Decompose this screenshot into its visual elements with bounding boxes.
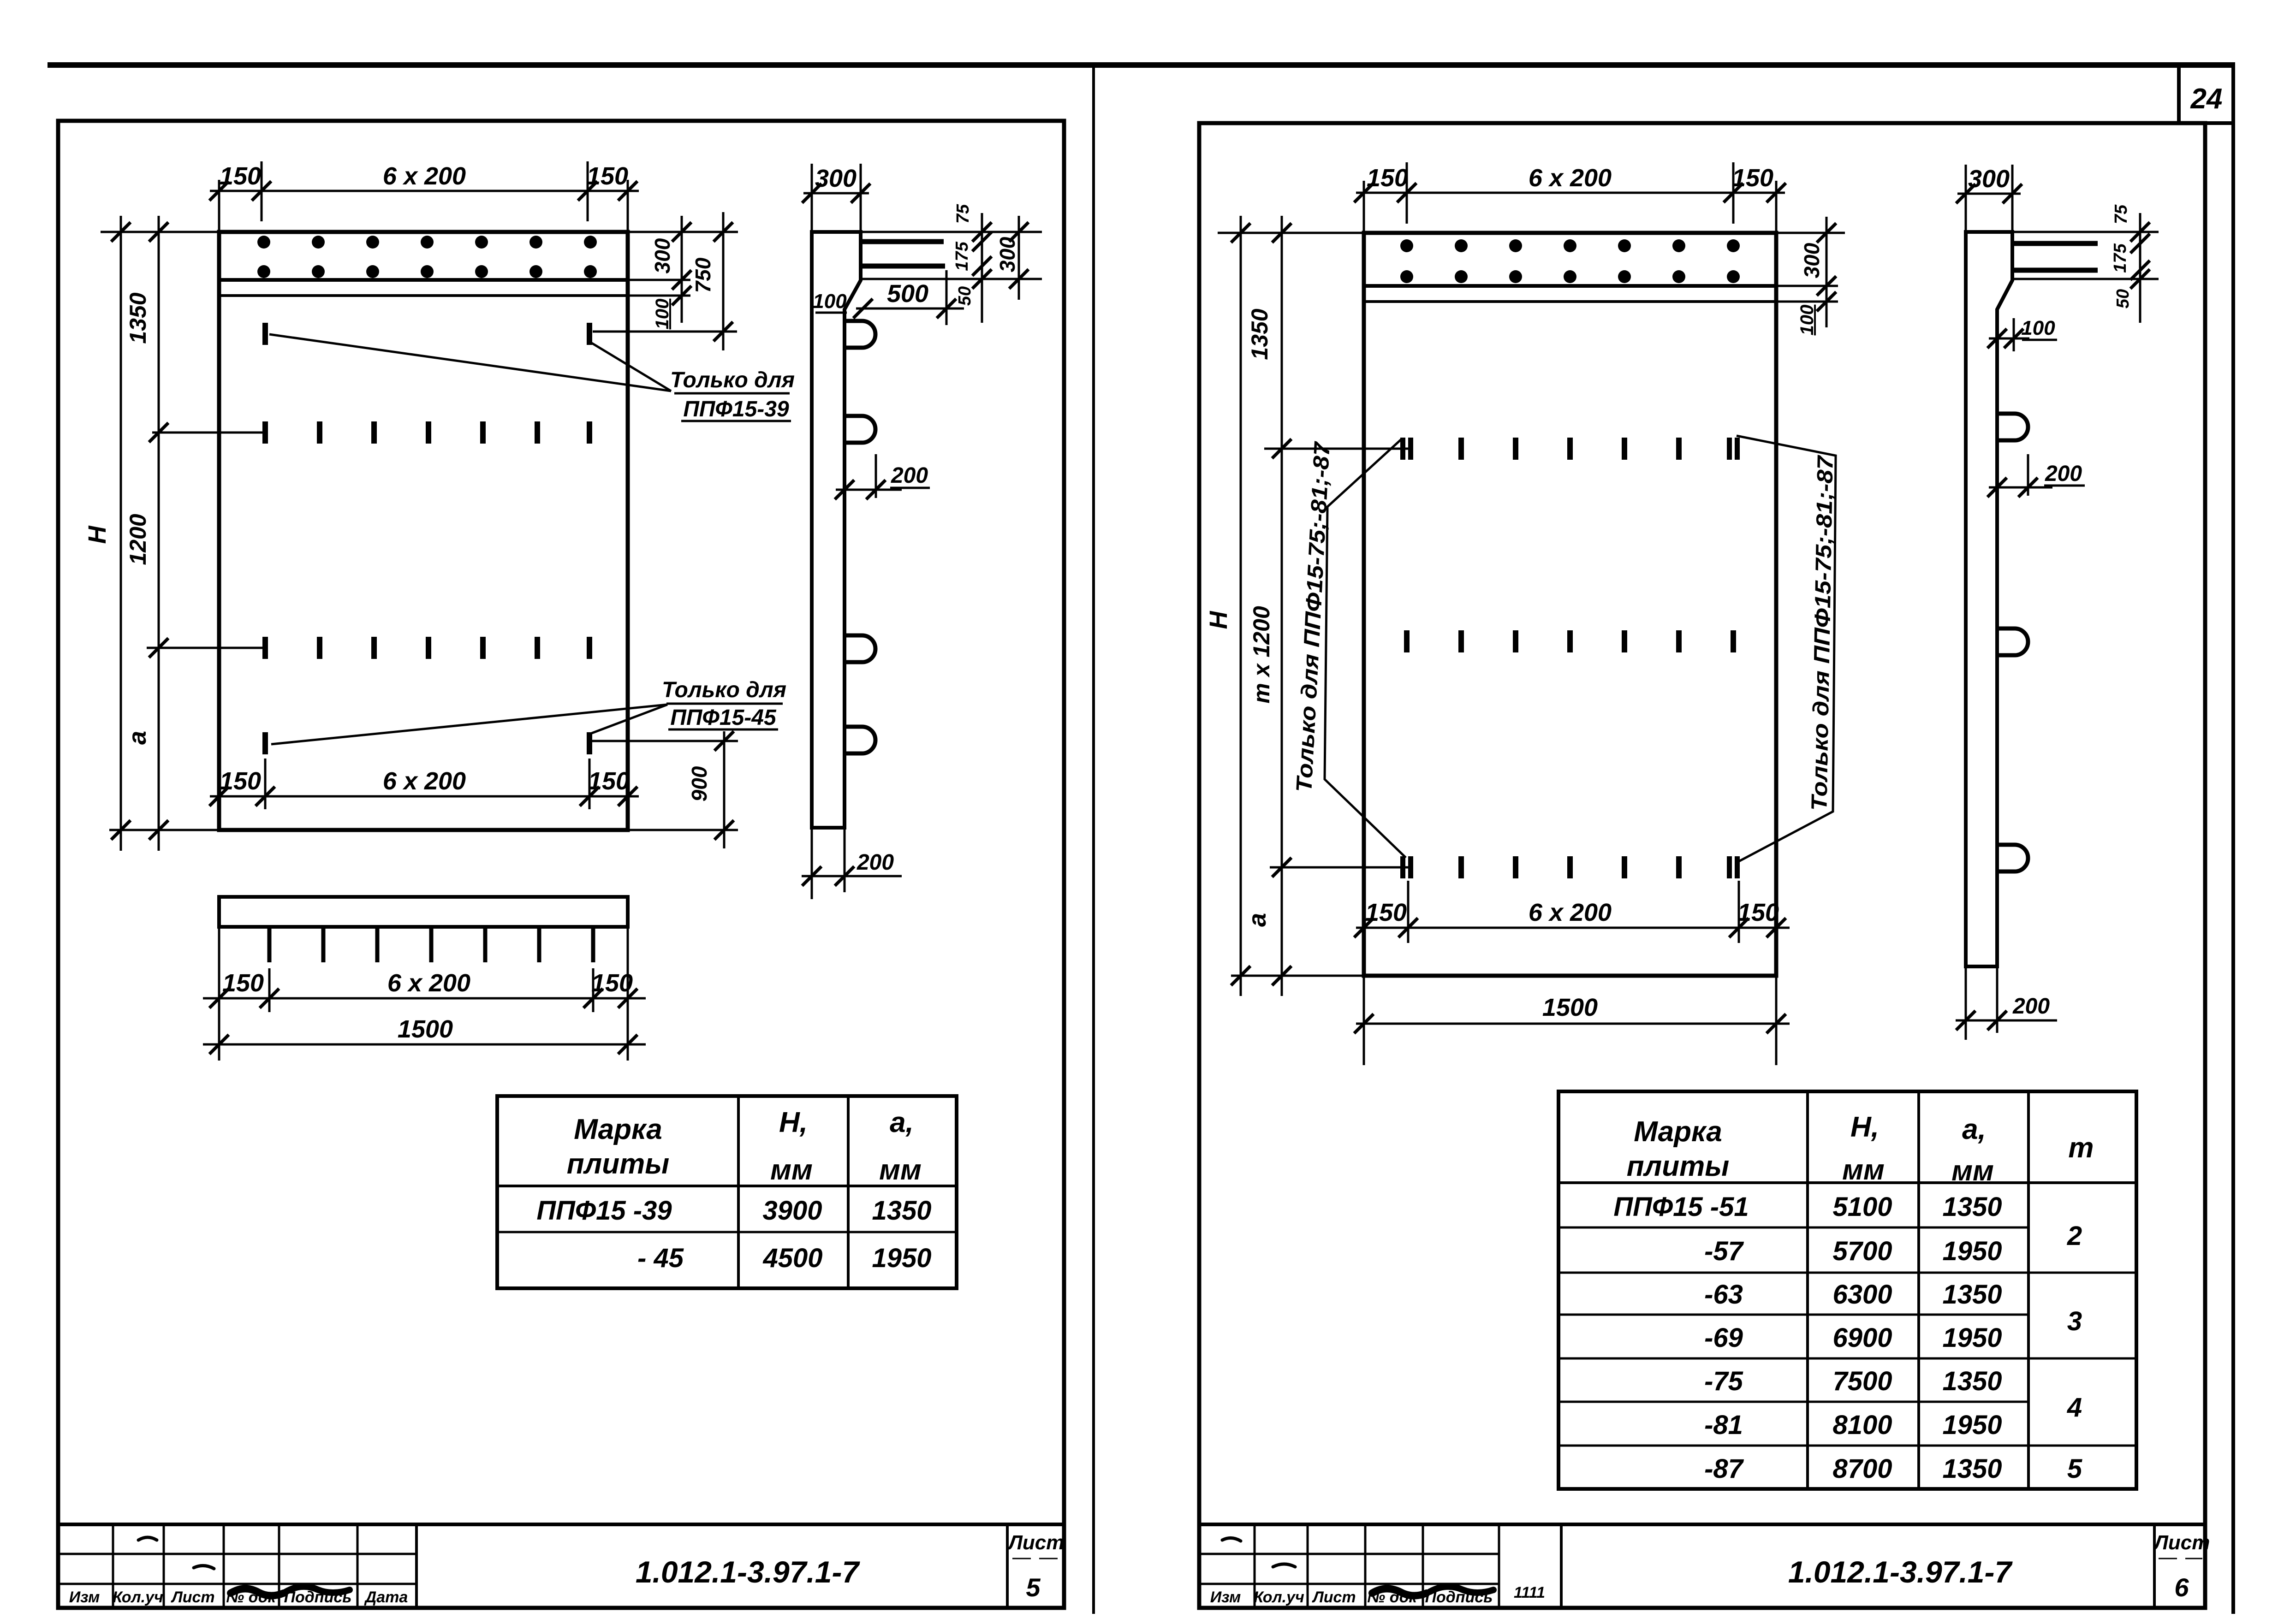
svg-text:1950: 1950: [1942, 1410, 2002, 1440]
left dimension chain H / 1350 1200 a: [83, 216, 267, 851]
svg-text:1350: 1350: [1942, 1454, 2002, 1484]
svg-text:а: а: [1243, 913, 1271, 927]
plan view slab outline: [219, 232, 628, 830]
rebar tick row 2: [262, 421, 592, 444]
right side dims of plan: 300 100 750: [593, 212, 738, 350]
protruding bar 1: [862, 239, 944, 244]
lifting hook 2: [845, 416, 875, 443]
section outline: [812, 232, 861, 828]
svg-text:75: 75: [2112, 204, 2131, 224]
flange anchor dots row 1: [1400, 239, 1740, 252]
svg-text:300: 300: [1800, 243, 1824, 278]
bottom 200 dimension: [1965, 966, 1967, 1040]
svg-text:мм: мм: [1842, 1154, 1885, 1186]
svg-text:Только для ППФ15-75;-81;-87: Только для ППФ15-75;-81;-87: [1292, 440, 1335, 793]
right sheet table: [1558, 1091, 2136, 1489]
svg-text:3900: 3900: [762, 1196, 822, 1226]
left dimension chain H / 1350 m x 1200 a: [1205, 216, 1408, 996]
plan top flange bottom line: [219, 278, 628, 282]
plan second line: [219, 294, 628, 297]
lifting hook 2: [1997, 628, 2028, 655]
svg-text:плиты: плиты: [567, 1148, 669, 1180]
vertical dim chain 75 175 50: [981, 213, 983, 323]
svg-text:8700: 8700: [1832, 1454, 1892, 1484]
svg-text:-63: -63: [1704, 1280, 1743, 1310]
svg-text:150: 150: [1737, 899, 1779, 926]
svg-text:200: 200: [2045, 462, 2082, 486]
rebar tick row 3: [262, 637, 592, 659]
svg-text:1111: 1111: [1514, 1584, 1545, 1601]
svg-text:мм: мм: [1951, 1155, 1994, 1187]
bottom view dim 1500: [203, 1043, 646, 1046]
svg-text:150: 150: [1732, 164, 1773, 192]
svg-text:1350: 1350: [1942, 1192, 2002, 1222]
rebar tick row 4 (only for PPF15-45): [262, 732, 592, 754]
svg-text:- 45: - 45: [637, 1243, 684, 1273]
line under bars: [862, 278, 1042, 280]
protruding bar 2: [2014, 268, 2098, 273]
svg-text:-81: -81: [1704, 1410, 1743, 1440]
flange anchor dots row 1: [257, 236, 597, 249]
plan second line: [1364, 300, 1776, 303]
svg-text:1350: 1350: [1247, 308, 1273, 360]
svg-text:50: 50: [2113, 289, 2133, 308]
svg-text:6300: 6300: [1832, 1280, 1892, 1310]
svg-text:5700: 5700: [1832, 1236, 1892, 1266]
svg-text:Лист: Лист: [1007, 1531, 1065, 1554]
svg-text:Н: Н: [1205, 611, 1232, 629]
svg-text:300: 300: [815, 165, 857, 192]
bottom 200 dimension: [811, 828, 813, 899]
svg-text:300: 300: [1968, 165, 2010, 193]
svg-text:150: 150: [1365, 899, 1407, 926]
svg-text:-57: -57: [1704, 1236, 1744, 1266]
left title block: [58, 1524, 1064, 1608]
svg-text:Н,: Н,: [1850, 1111, 1879, 1143]
leader label: Только для ППФ15-39: [269, 334, 795, 421]
svg-text:900: 900: [687, 766, 711, 801]
svg-text:ППФ15-45: ППФ15-45: [670, 705, 777, 730]
hook 200 dimension: [875, 454, 877, 498]
svg-text:150: 150: [588, 767, 630, 795]
svg-text:Н,: Н,: [779, 1107, 808, 1138]
svg-text:мм: мм: [879, 1154, 922, 1186]
svg-text:-75: -75: [1704, 1366, 1743, 1396]
svg-text:Изм: Изм: [1210, 1588, 1241, 1606]
svg-text:750: 750: [691, 257, 715, 293]
line under bars: [2014, 278, 2159, 280]
svg-text:5: 5: [1026, 1573, 1041, 1602]
svg-text:Марка: Марка: [1634, 1116, 1722, 1148]
svg-text:6: 6: [2174, 1573, 2189, 1602]
right side dims of plan: 300 100: [1776, 217, 1845, 335]
svg-text:а,: а,: [890, 1107, 914, 1138]
svg-text:8100: 8100: [1832, 1410, 1892, 1440]
svg-text:1950: 1950: [1942, 1236, 2002, 1266]
svg-text:Н: Н: [83, 526, 111, 544]
leader label: Только для ППФ15-45: [271, 678, 786, 744]
svg-text:24: 24: [2190, 83, 2223, 115]
right rotated leader label: [1737, 436, 1838, 861]
svg-text:1350: 1350: [1942, 1280, 2002, 1310]
svg-text:150: 150: [220, 162, 261, 190]
svg-text:1350: 1350: [872, 1196, 931, 1226]
svg-text:а: а: [124, 731, 151, 745]
section outline: [1966, 232, 2012, 966]
lifting hook 4: [845, 727, 875, 753]
svg-text:5: 5: [2067, 1454, 2082, 1484]
svg-text:4: 4: [2067, 1393, 2082, 1422]
svg-text:1.012.1-3.97.1-7: 1.012.1-3.97.1-7: [1788, 1555, 2013, 1589]
svg-text:150: 150: [220, 767, 261, 795]
rebar tick row bottom (doubles at ends): [1400, 856, 1740, 878]
right sheet side section view: [1956, 165, 2159, 1040]
rebar tick row 1 (only for PPF15-39): [262, 323, 592, 345]
svg-text:Лист: Лист: [170, 1588, 214, 1606]
svg-text:175: 175: [2111, 243, 2130, 273]
svg-text:100: 100: [2021, 317, 2055, 339]
svg-text:Дата: Дата: [364, 1588, 408, 1606]
bottom inner dimension line 150 6x200 150: [1354, 881, 1790, 943]
svg-text:6 х 200: 6 х 200: [1529, 899, 1612, 926]
lifting hook 3: [845, 635, 875, 662]
lifting hook 3: [1997, 845, 2028, 871]
svg-text:ППФ15-39: ППФ15-39: [683, 397, 789, 421]
hook 200 dimension: [2027, 454, 2029, 496]
svg-text:150: 150: [1367, 164, 1408, 192]
page top border line: [48, 62, 2235, 68]
top dimension line 150 6x200 150: [1354, 162, 1786, 233]
lifting hook 1: [845, 321, 875, 348]
protruding bar 2: [862, 264, 945, 269]
svg-text:200: 200: [857, 850, 894, 875]
section top 300 dim: [811, 164, 813, 232]
svg-text:1950: 1950: [1942, 1323, 2002, 1353]
sheet 6 frame: [1199, 123, 2205, 1608]
svg-text:1350: 1350: [1942, 1366, 2002, 1396]
svg-text:1500: 1500: [398, 1015, 453, 1043]
flange anchor dots row 2: [1400, 270, 1740, 283]
svg-text:150: 150: [591, 969, 633, 997]
rebar tick row top (doubles at ends, only for PPF15-75,81,87): [1400, 438, 1740, 460]
svg-text:1350: 1350: [125, 292, 151, 344]
svg-text:2: 2: [2067, 1221, 2082, 1251]
svg-text:75: 75: [953, 204, 973, 224]
svg-text:m: m: [2068, 1132, 2094, 1164]
svg-text:300: 300: [995, 237, 1019, 272]
flange anchor dots row 2: [257, 265, 597, 278]
top face extension: [2012, 231, 2159, 233]
svg-text:Марка: Марка: [574, 1114, 662, 1145]
bottom dimension line 150 6x200 150 (inside plan): [209, 759, 639, 809]
plan top flange bottom line: [1364, 284, 1776, 288]
section top 300 dim: [1965, 165, 1967, 232]
svg-text:ППФ15 -39: ППФ15 -39: [536, 1196, 672, 1226]
svg-text:50: 50: [955, 286, 975, 306]
svg-text:7500: 7500: [1832, 1366, 1892, 1396]
svg-text:1.012.1-3.97.1-7: 1.012.1-3.97.1-7: [636, 1555, 861, 1589]
svg-text:3: 3: [2067, 1306, 2082, 1336]
svg-text:1500: 1500: [1542, 994, 1598, 1021]
svg-text:100: 100: [652, 299, 672, 330]
svg-text:Только для: Только для: [662, 678, 786, 702]
lifting hook 1: [1997, 414, 2028, 440]
vertical 300 dim: [1018, 216, 1020, 300]
protruding bar 1: [2014, 241, 2098, 246]
svg-text:6900: 6900: [1832, 1323, 1892, 1353]
vertical dim chain 75 175 50: [2139, 213, 2141, 323]
svg-text:а,: а,: [1962, 1114, 1986, 1145]
svg-text:150: 150: [587, 162, 628, 190]
svg-text:1950: 1950: [872, 1243, 931, 1273]
svg-text:100: 100: [1797, 305, 1817, 336]
page divider between sheets: [1092, 65, 1095, 1614]
svg-text:Лист: Лист: [1311, 1588, 1356, 1606]
svg-text:200: 200: [2012, 994, 2050, 1019]
top face extension: [861, 231, 1042, 233]
svg-text:1200: 1200: [125, 514, 151, 565]
bottom 1500 dimension: [1354, 976, 1790, 1065]
plan view slab outline: [1364, 233, 1776, 976]
svg-text:Только для: Только для: [670, 368, 795, 392]
svg-text:175: 175: [952, 241, 972, 271]
svg-text:5100: 5100: [1832, 1192, 1892, 1222]
svg-text:m х 1200: m х 1200: [1249, 606, 1274, 703]
svg-text:6 х 200: 6 х 200: [1529, 164, 1612, 192]
left sheet bottom edge view: [203, 897, 646, 1061]
left rotated leader label: [1292, 439, 1406, 858]
svg-text:6 х 200: 6 х 200: [383, 767, 466, 795]
bottom view dim 150 6x200 150: [268, 968, 271, 1012]
svg-text:Изм: Изм: [69, 1588, 100, 1606]
page number box 24: [2177, 65, 2181, 123]
svg-text:Лист: Лист: [2153, 1531, 2210, 1554]
500 dimension: [946, 270, 948, 325]
svg-text:500: 500: [887, 280, 928, 308]
page right border: [2231, 65, 2235, 1614]
svg-text:Кол.уч: Кол.уч: [1254, 1588, 1304, 1606]
sheet 5 frame: [58, 121, 1064, 1608]
svg-text:плиты: плиты: [1627, 1150, 1729, 1182]
title block handwriting smudges: [138, 1537, 1493, 1596]
svg-text:мм: мм: [770, 1154, 813, 1186]
svg-text:300: 300: [650, 238, 674, 273]
top dimension line 150 6x200 150: [209, 161, 639, 232]
900 dimension at bottom right of plan: [591, 731, 738, 848]
right title block: [1199, 1524, 2210, 1608]
svg-text:6 х 200: 6 х 200: [383, 162, 466, 190]
rebar tick row middle: [1404, 630, 1736, 652]
svg-text:100: 100: [813, 290, 847, 313]
svg-text:4500: 4500: [762, 1243, 822, 1273]
svg-text:150: 150: [222, 969, 264, 997]
svg-text:Кол.уч: Кол.уч: [113, 1588, 163, 1606]
svg-text:-87: -87: [1704, 1454, 1744, 1484]
svg-text:-69: -69: [1704, 1323, 1743, 1353]
left sheet table: [497, 1096, 957, 1288]
svg-text:ППФ15 -51: ППФ15 -51: [1613, 1192, 1749, 1222]
svg-text:6 х 200: 6 х 200: [387, 969, 470, 997]
svg-text:200: 200: [891, 463, 928, 488]
left sheet side section view: [802, 164, 1042, 899]
